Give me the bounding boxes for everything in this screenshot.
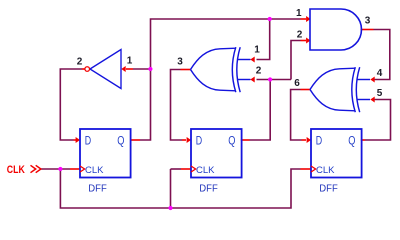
svg-text:DFF: DFF xyxy=(88,183,107,195)
svg-text:2: 2 xyxy=(77,57,83,68)
svg-text:1: 1 xyxy=(127,56,133,67)
svg-text:2: 2 xyxy=(297,30,303,41)
svg-text:4: 4 xyxy=(377,68,383,79)
svg-text:D: D xyxy=(85,134,92,148)
svg-text:Q: Q xyxy=(117,134,124,148)
svg-text:3: 3 xyxy=(365,16,371,27)
svg-text:CLK: CLK xyxy=(7,164,25,176)
svg-text:2: 2 xyxy=(256,66,262,77)
svg-text:1: 1 xyxy=(296,8,302,19)
svg-text:CLK: CLK xyxy=(85,165,104,176)
svg-text:3: 3 xyxy=(177,57,183,68)
svg-text:6: 6 xyxy=(294,78,300,89)
svg-text:1: 1 xyxy=(254,45,260,56)
svg-text:5: 5 xyxy=(377,88,383,99)
